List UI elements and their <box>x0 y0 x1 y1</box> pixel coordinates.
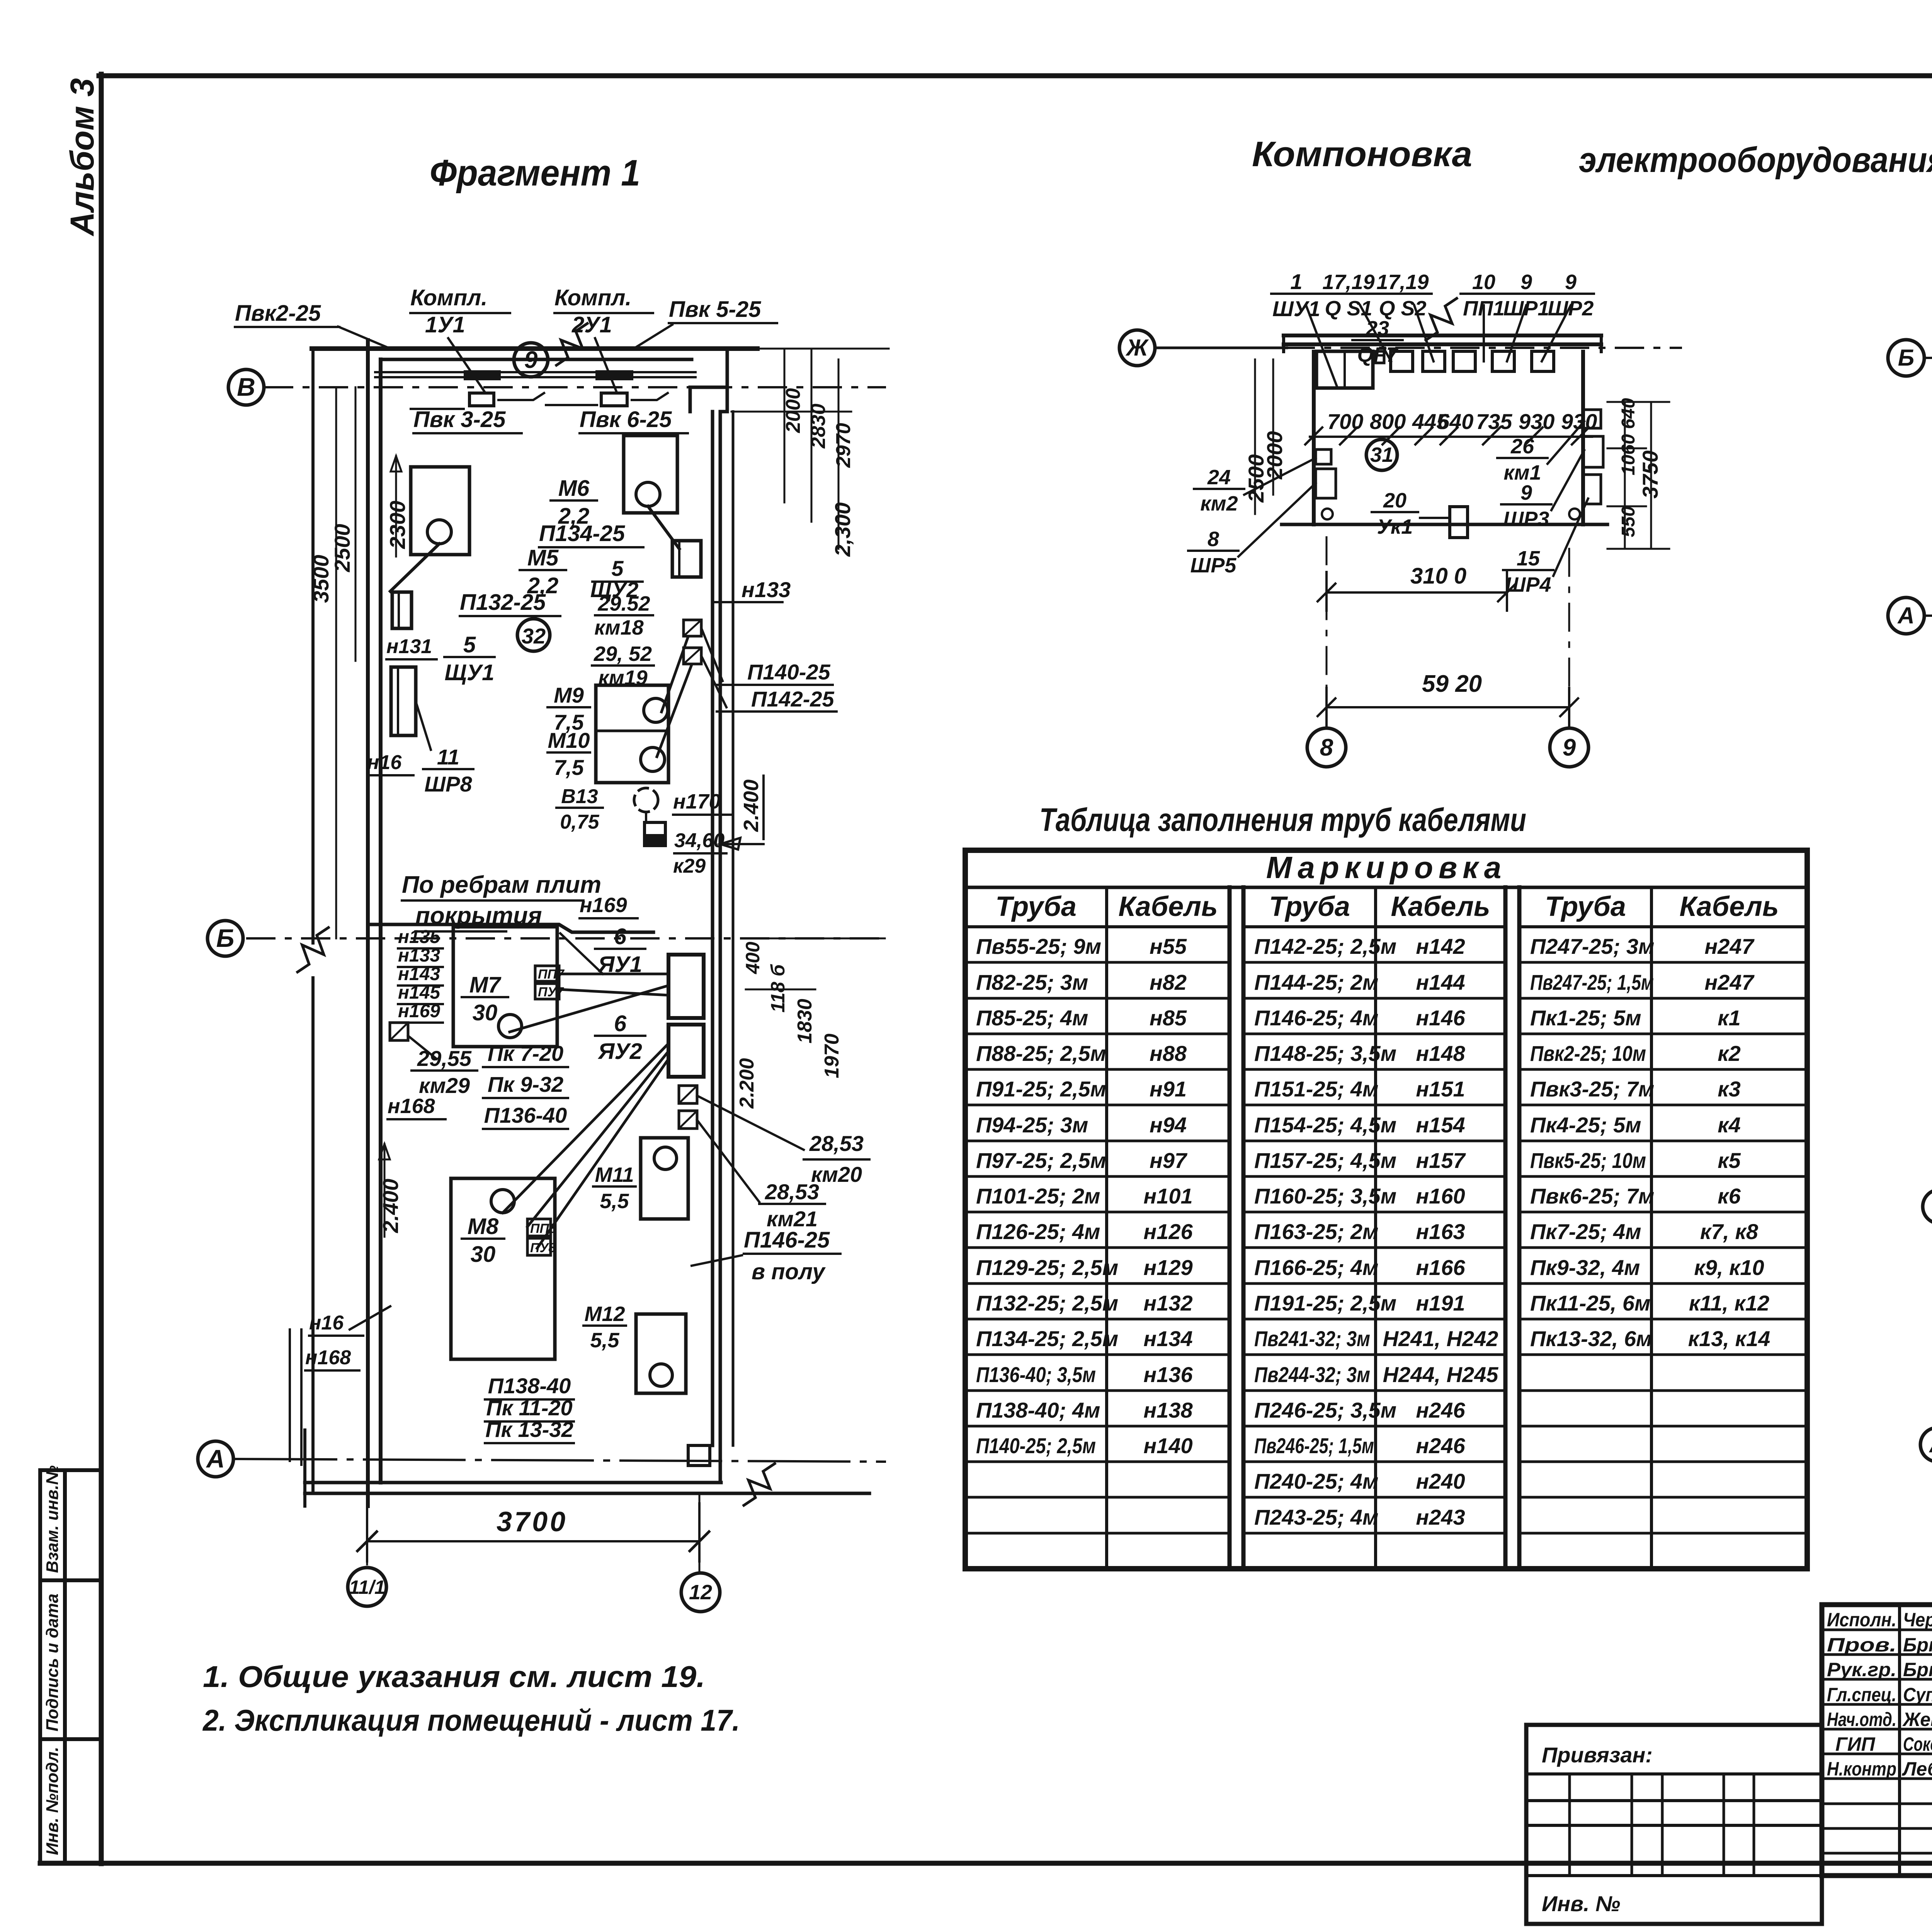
box YaU1 <box>668 955 704 1018</box>
svg-text:1970: 1970 <box>821 1033 843 1078</box>
svg-text:ПП7: ПП7 <box>538 967 565 982</box>
svg-text:5,5: 5,5 <box>590 1329 619 1352</box>
mid corner circles <box>1322 509 1333 519</box>
svg-text:Пвк6-25; 7м: Пвк6-25; 7м <box>1530 1184 1654 1208</box>
svg-text:118 б: 118 б <box>767 963 789 1013</box>
svg-text:ШУ1: ШУ1 <box>1272 296 1320 321</box>
svg-text:1. Общие указания см. лист: 1. Общие указания см. лист 19. <box>203 1660 705 1694</box>
svg-text:н246: н246 <box>1416 1433 1465 1458</box>
svg-text:н247: н247 <box>1704 934 1755 958</box>
boxes PP7 PU7 <box>535 966 559 981</box>
svg-text:П136-40; 3,5м: П136-40; 3,5м <box>976 1362 1096 1387</box>
svg-text:Пв246-25; 1,5м: Пв246-25; 1,5м <box>1254 1433 1374 1458</box>
svg-text:н136: н136 <box>1143 1362 1193 1387</box>
svg-text:н142: н142 <box>1416 934 1465 958</box>
svg-text:Пвк3-25; 7м: Пвк3-25; 7м <box>1530 1077 1654 1101</box>
label stack P138 <box>485 1398 574 1401</box>
svg-text:Пров.: Пров. <box>1827 1634 1896 1656</box>
svg-text:Пвк 5-25: Пвк 5-25 <box>669 297 761 322</box>
svg-text:Q S1: Q S1 <box>1325 297 1372 320</box>
svg-text:н138: н138 <box>1143 1398 1193 1422</box>
svg-text:Альбом 3: Альбом 3 <box>64 78 101 237</box>
svg-text:Пк1-25; 5м: Пк1-25; 5м <box>1530 1006 1641 1030</box>
svg-text:П157-25; 4,5м: П157-25; 4,5м <box>1254 1148 1396 1173</box>
svg-text:П97-25; 2,5м: П97-25; 2,5м <box>976 1148 1106 1173</box>
svg-text:Пк 13-32: Пк 13-32 <box>485 1417 573 1442</box>
svg-text:24: 24 <box>1207 466 1231 489</box>
svg-text:Пк 11-20: Пк 11-20 <box>486 1396 572 1420</box>
svg-text:3700: 3700 <box>497 1507 568 1537</box>
svg-text:А: А <box>206 1444 225 1473</box>
svg-text:26: 26 <box>1510 435 1534 458</box>
svg-text:н151: н151 <box>1416 1077 1465 1101</box>
svg-text:ШР2: ШР2 <box>1548 297 1594 320</box>
grid line V <box>265 386 885 388</box>
room circle 32 <box>517 619 550 651</box>
svg-text:н157: н157 <box>1416 1148 1466 1173</box>
svg-text:к9, к10: к9, к10 <box>1694 1255 1764 1280</box>
svg-text:н170: н170 <box>673 790 721 813</box>
rotated dims left <box>336 387 355 938</box>
box n131 <box>392 592 412 628</box>
rotated dim 2400 left <box>379 1144 390 1237</box>
left plan walls <box>312 346 757 351</box>
svg-text:Кабель: Кабель <box>1679 891 1779 922</box>
svg-text:П163-25; 2м: П163-25; 2м <box>1254 1219 1378 1244</box>
svg-text:П240-25; 4м: П240-25; 4м <box>1254 1469 1378 1493</box>
svg-text:П134-25; 2,5м: П134-25; 2,5м <box>976 1326 1118 1351</box>
Pvk6 box and label <box>601 393 627 406</box>
motor M6 <box>624 436 677 513</box>
svg-text:Пв247-25; 1,5м: Пв247-25; 1,5м <box>1530 970 1654 994</box>
svg-text:1У1: 1У1 <box>425 312 465 337</box>
rotated dims right bottom <box>746 938 885 989</box>
svg-text:км29: км29 <box>419 1073 470 1098</box>
svg-text:н131: н131 <box>386 635 432 658</box>
svg-text:2000: 2000 <box>1262 431 1287 480</box>
svg-text:Кабель: Кабель <box>1391 891 1490 922</box>
svg-text:н169: н169 <box>580 894 627 917</box>
svg-text:к1: к1 <box>1718 1006 1741 1030</box>
svg-text:Пвк5-25; 10м: Пвк5-25; 10м <box>1530 1148 1646 1173</box>
svg-text:15: 15 <box>1517 547 1540 570</box>
svg-text:2У1: 2У1 <box>571 312 612 337</box>
mid plan bottom wall <box>1282 523 1607 526</box>
svg-text:н133: н133 <box>742 577 791 602</box>
table markirovka divider <box>965 886 1807 889</box>
svg-text:6: 6 <box>614 1011 627 1036</box>
svg-text:Н241, Н242: Н241, Н242 <box>1383 1326 1498 1351</box>
door arc bottom <box>688 1445 710 1466</box>
table outer frame <box>965 850 1807 1569</box>
mid 31 circle <box>1366 439 1397 470</box>
svg-text:11: 11 <box>437 745 459 769</box>
svg-text:П151-25; 4м: П151-25; 4м <box>1254 1077 1378 1101</box>
svg-text:Н244, Н245: Н244, Н245 <box>1383 1362 1499 1387</box>
svg-text:П247-25; 3м: П247-25; 3м <box>1530 934 1654 958</box>
motor M5 <box>411 467 469 555</box>
svg-text:Б: Б <box>1898 345 1914 371</box>
svg-text:П82-25; 3м: П82-25; 3м <box>976 970 1088 994</box>
svg-text:н134: н134 <box>1143 1326 1192 1351</box>
mid small panels row <box>1391 351 1413 371</box>
svg-text:км2: км2 <box>1200 492 1238 515</box>
label n169 <box>580 917 638 919</box>
svg-text:н246: н246 <box>1416 1398 1465 1422</box>
svg-text:2000: 2000 <box>782 388 804 433</box>
frame left border <box>99 74 104 1864</box>
svg-text:2300: 2300 <box>385 500 410 549</box>
svg-text:к4: к4 <box>1718 1113 1741 1137</box>
svg-text:700: 700 <box>1327 409 1363 434</box>
svg-text:ЯУ1: ЯУ1 <box>597 952 642 977</box>
svg-text:23: 23 <box>1366 317 1389 340</box>
svg-text:П144-25; 2м: П144-25; 2м <box>1254 970 1378 994</box>
leader lines top labels <box>235 326 339 328</box>
svg-text:электрооборудования: электрооборудования <box>1579 140 1932 180</box>
svg-text:ШР1: ШР1 <box>1503 297 1549 320</box>
svg-text:3750: 3750 <box>1638 450 1662 499</box>
svg-text:Ж: Ж <box>1125 335 1149 361</box>
svg-text:Компл.: Компл. <box>554 285 631 310</box>
svg-text:н247: н247 <box>1704 970 1755 994</box>
right secondary lines <box>732 412 735 1445</box>
grid circle 12 <box>699 1493 701 1572</box>
svg-text:н148: н148 <box>1416 1041 1465 1066</box>
svg-text:н101: н101 <box>1143 1184 1192 1208</box>
svg-text:н97: н97 <box>1150 1148 1188 1173</box>
mid dim 5920 <box>1327 706 1569 708</box>
svg-text:Пк 7-20: Пк 7-20 <box>488 1041 563 1066</box>
svg-text:П246-25; 3,5м: П246-25; 3,5м <box>1254 1398 1396 1422</box>
svg-text:н82: н82 <box>1150 970 1187 994</box>
svg-text:А: А <box>1897 603 1914 628</box>
svg-text:1830: 1830 <box>794 999 816 1044</box>
svg-text:к29: к29 <box>673 855 706 877</box>
svg-text:29,55: 29,55 <box>417 1046 472 1071</box>
svg-text:2. Экспликация помещений -: 2. Экспликация помещений - лист 17. <box>202 1703 740 1737</box>
svg-text:П85-25; 4м: П85-25; 4м <box>976 1006 1088 1030</box>
svg-text:9: 9 <box>524 347 538 373</box>
svg-text:н168: н168 <box>305 1347 351 1369</box>
svg-text:П140-25; 2,5м: П140-25; 2,5м <box>976 1433 1096 1458</box>
svg-text:550: 550 <box>1618 506 1639 537</box>
svg-text:735: 735 <box>1476 409 1512 434</box>
svg-text:28,53: 28,53 <box>765 1180 819 1204</box>
km29 <box>390 1023 408 1040</box>
break bottom right <box>744 1464 775 1505</box>
box YaU2 <box>668 1025 704 1077</box>
mid dim row <box>1310 436 1592 438</box>
right grid A wall <box>1924 615 1932 617</box>
mid dim 3100 <box>1327 591 1507 594</box>
right niche step <box>690 349 727 412</box>
right plan grid B wall <box>1924 357 1932 359</box>
svg-text:Взам. инв.№: Взам. инв.№ <box>43 1466 62 1573</box>
svg-text:Пв55-25; 9м: Пв55-25; 9м <box>976 934 1101 958</box>
mid right boxes <box>1583 410 1601 428</box>
svg-text:Лебская: Лебская <box>1902 1758 1932 1780</box>
svg-text:17,19: 17,19 <box>1322 271 1374 294</box>
privyazan block <box>1526 1725 1822 1924</box>
svg-text:А: А <box>1929 1432 1932 1457</box>
svg-text:н191: н191 <box>1416 1291 1465 1315</box>
svg-text:2.400: 2.400 <box>378 1179 403 1233</box>
svg-text:н169: н169 <box>398 1001 440 1021</box>
svg-text:Рук.гр.: Рук.гр. <box>1827 1659 1896 1680</box>
svg-text:Жевнеров: Жевнеров <box>1902 1709 1932 1730</box>
svg-text:2830: 2830 <box>807 403 830 449</box>
svg-text:3500: 3500 <box>309 555 333 603</box>
svg-text:Q S2: Q S2 <box>1379 297 1426 320</box>
svg-text:30: 30 <box>471 1242 496 1267</box>
svg-text:ПП8: ПП8 <box>530 1221 556 1236</box>
svg-text:покрытия: покрытия <box>415 902 542 929</box>
svg-text:М5: М5 <box>527 545 559 570</box>
svg-text:Н.контр: Н.контр <box>1827 1758 1896 1780</box>
svg-text:к2: к2 <box>1718 1041 1741 1066</box>
mid plan left wall <box>1312 352 1316 524</box>
mid UK1 box <box>1450 507 1468 538</box>
svg-text:29.52: 29.52 <box>597 592 650 615</box>
svg-text:П191-25; 2,5м: П191-25; 2,5м <box>1254 1291 1396 1315</box>
mid right labels <box>1497 457 1548 459</box>
svg-text:28,53: 28,53 <box>809 1131 864 1156</box>
svg-text:П88-25; 2,5м: П88-25; 2,5м <box>976 1041 1106 1066</box>
svg-text:ШР5: ШР5 <box>1190 554 1237 577</box>
svg-text:П138-40: П138-40 <box>488 1374 571 1398</box>
svg-text:км1: км1 <box>1503 461 1541 484</box>
internal wall at B <box>368 924 653 932</box>
svg-text:П154-25; 4,5м: П154-25; 4,5м <box>1254 1113 1396 1137</box>
svg-text:Пв244-32; 3м: Пв244-32; 3м <box>1254 1362 1370 1387</box>
mid UK1 label <box>1372 511 1418 513</box>
svg-text:ПП1: ПП1 <box>1463 297 1505 320</box>
svg-text:Гл.спец.: Гл.спец. <box>1827 1684 1896 1706</box>
svg-text:М9: М9 <box>554 683 584 707</box>
svg-text:к3: к3 <box>1718 1077 1741 1101</box>
obl grid A line <box>1920 1428 1932 1462</box>
svg-text:н16: н16 <box>367 751 402 774</box>
svg-text:П142-25: П142-25 <box>751 687 835 711</box>
svg-text:М11: М11 <box>595 1163 634 1187</box>
svg-text:8: 8 <box>1320 734 1333 761</box>
svg-text:Подпись и дата: Подпись и дата <box>43 1593 62 1731</box>
svg-text:ГИП: ГИП <box>1835 1733 1876 1755</box>
label stack Pk7 <box>483 1066 568 1068</box>
svg-text:6: 6 <box>614 924 627 949</box>
right wall <box>690 387 720 1483</box>
svg-text:Червонная: Червонная <box>1903 1609 1932 1631</box>
svg-text:П243-25; 4м: П243-25; 4м <box>1254 1505 1378 1529</box>
svg-text:н88: н88 <box>1150 1041 1187 1066</box>
V13 dashed circle <box>634 788 658 812</box>
svg-text:П136-40: П136-40 <box>484 1103 567 1127</box>
svg-text:Пк 9-32: Пк 9-32 <box>488 1072 563 1096</box>
motor M7 <box>453 927 557 1047</box>
svg-text:М7: М7 <box>469 972 502 998</box>
motors M9 M10 <box>596 685 668 783</box>
svg-text:Ук1: Ук1 <box>1377 515 1413 538</box>
svg-text:П132-25; 2,5м: П132-25; 2,5м <box>976 1291 1118 1315</box>
motor M12 <box>636 1314 686 1393</box>
svg-text:П134-25: П134-25 <box>539 521 625 546</box>
svg-text:400: 400 <box>742 941 764 974</box>
svg-text:П129-25; 2,5м: П129-25; 2,5м <box>976 1255 1118 1280</box>
svg-text:2,300: 2,300 <box>830 502 855 557</box>
mid rotated dims left <box>1255 359 1273 514</box>
mid plan right wall <box>1581 352 1585 524</box>
po rebram note <box>402 901 583 931</box>
svg-text:2500: 2500 <box>330 524 354 572</box>
wall black bar 2 <box>595 370 633 380</box>
mid grid circles 8 9 <box>1326 537 1328 723</box>
svg-text:Исполн.: Исполн. <box>1827 1609 1896 1631</box>
Pvk3 box and label <box>469 393 494 406</box>
svg-text:Б: Б <box>216 924 235 952</box>
svg-text:Пвк2-25: Пвк2-25 <box>235 301 321 326</box>
svg-text:ШР4: ШР4 <box>1505 573 1551 596</box>
svg-text:П126-25; 4м: П126-25; 4м <box>976 1219 1100 1244</box>
svg-text:2970: 2970 <box>832 423 855 468</box>
svg-text:11/1: 11/1 <box>349 1576 385 1598</box>
grid line A <box>236 1459 885 1462</box>
svg-text:640: 640 <box>1618 398 1639 429</box>
svg-text:П142-25; 2,5м: П142-25; 2,5м <box>1254 934 1396 958</box>
svg-text:30: 30 <box>473 1000 498 1025</box>
svg-text:Труба: Труба <box>1269 891 1350 922</box>
left wall double <box>368 340 381 1506</box>
svg-text:9: 9 <box>1520 481 1532 504</box>
leaders km18 km19 to motors <box>657 638 692 757</box>
svg-text:П160-25; 3,5м: П160-25; 3,5м <box>1254 1184 1396 1208</box>
label stack n135 <box>398 947 443 950</box>
mid labels left <box>1194 488 1244 490</box>
svg-text:800: 800 <box>1370 409 1406 434</box>
svg-text:н144: н144 <box>1416 970 1465 994</box>
svg-text:ШР3: ШР3 <box>1503 507 1549 531</box>
mid vertical dims right <box>1607 402 1669 549</box>
km18 km19 <box>684 620 701 636</box>
svg-text:н133: н133 <box>398 945 440 966</box>
mid labels top <box>1271 293 1321 295</box>
svg-text:0,75: 0,75 <box>560 811 599 833</box>
svg-text:9: 9 <box>1565 271 1577 294</box>
svg-text:930: 930 <box>1561 409 1597 434</box>
svg-text:н154: н154 <box>1416 1113 1465 1137</box>
svg-text:М12: М12 <box>584 1302 625 1326</box>
break sym on left line <box>298 928 328 972</box>
svg-text:32: 32 <box>522 624 546 648</box>
svg-text:П101-25; 2м: П101-25; 2м <box>976 1184 1100 1208</box>
left attachment boxes <box>40 1470 101 1863</box>
svg-text:Инв. №: Инв. № <box>1542 1891 1620 1916</box>
svg-text:П148-25; 3,5м: П148-25; 3,5м <box>1254 1041 1396 1066</box>
n16 n168 labels <box>309 1335 363 1337</box>
svg-text:н140: н140 <box>1143 1433 1192 1458</box>
svg-text:н143: н143 <box>398 964 440 984</box>
svg-text:Брюм: Брюм <box>1903 1659 1932 1680</box>
svg-text:ЩУ1: ЩУ1 <box>445 660 495 685</box>
dim 3700 <box>367 1540 699 1542</box>
svg-text:н166: н166 <box>1416 1255 1465 1280</box>
svg-text:П166-25; 4м: П166-25; 4м <box>1254 1255 1378 1280</box>
svg-text:М10: М10 <box>548 728 590 752</box>
svg-text:Таблица заполнения труб ка: Таблица заполнения труб кабелями <box>1039 802 1526 838</box>
svg-text:к13, к14: к13, к14 <box>1688 1326 1770 1351</box>
svg-text:QF7: QF7 <box>1357 343 1399 366</box>
svg-text:10: 10 <box>1472 271 1495 294</box>
leaders YaU to M7/M8 <box>510 974 668 1032</box>
svg-text:П146-25; 4м: П146-25; 4м <box>1254 1006 1378 1030</box>
svg-text:Пк9-32, 4м: Пк9-32, 4м <box>1530 1255 1640 1280</box>
frame bottom border <box>40 1861 1932 1866</box>
svg-text:9: 9 <box>1563 734 1576 761</box>
svg-text:1060: 1060 <box>1618 434 1639 475</box>
svg-text:Пвк2-25; 10м: Пвк2-25; 10м <box>1530 1041 1646 1066</box>
label P146 v polu <box>744 1253 840 1255</box>
svg-text:н129: н129 <box>1143 1255 1192 1280</box>
km20 km21 <box>679 1086 697 1103</box>
svg-text:н132: н132 <box>1143 1291 1192 1315</box>
svg-text:Компоновка: Компоновка <box>1252 134 1472 174</box>
motor M11 <box>641 1138 688 1219</box>
svg-text:М6: М6 <box>558 476 590 501</box>
svg-text:Кабель: Кабель <box>1118 891 1218 922</box>
svg-text:Супрунова: Супрунова <box>1903 1684 1932 1706</box>
svg-text:Труба: Труба <box>995 891 1077 922</box>
svg-text:н163: н163 <box>1416 1219 1465 1244</box>
svg-text:5,5: 5,5 <box>600 1190 629 1213</box>
svg-text:Фрагмент 1: Фрагмент 1 <box>430 152 640 194</box>
svg-text:П132-25: П132-25 <box>460 590 546 615</box>
svg-text:ПУ8: ПУ8 <box>530 1241 556 1255</box>
motor M8 <box>451 1178 555 1359</box>
svg-text:34,60: 34,60 <box>674 829 724 852</box>
svg-text:н240: н240 <box>1416 1469 1465 1493</box>
svg-text:Брюм: Брюм <box>1903 1634 1932 1656</box>
svg-text:н145: н145 <box>398 982 440 1003</box>
box n170 <box>645 822 665 846</box>
svg-text:н135: н135 <box>398 927 440 947</box>
svg-text:н85: н85 <box>1150 1006 1187 1030</box>
svg-text:930: 930 <box>1519 409 1554 434</box>
svg-text:н160: н160 <box>1416 1184 1465 1208</box>
svg-text:Пк4-25; 5м: Пк4-25; 5м <box>1530 1113 1641 1137</box>
rotated dim 2400 right <box>720 776 764 849</box>
svg-text:Нач.отд.: Нач.отд. <box>1827 1709 1896 1730</box>
svg-text:Привязан:: Привязан: <box>1542 1743 1653 1767</box>
svg-text:Пк13-32, 6м: Пк13-32, 6м <box>1530 1326 1652 1351</box>
svg-text:5: 5 <box>611 556 624 580</box>
svg-text:к7, к8: к7, к8 <box>1700 1219 1759 1244</box>
svg-text:ШР8: ШР8 <box>424 772 472 796</box>
svg-text:Пвк 6-25: Пвк 6-25 <box>580 407 672 432</box>
svg-text:17,19: 17,19 <box>1376 271 1429 294</box>
frame top border <box>99 73 1932 78</box>
wall black bar 1 <box>464 370 501 380</box>
svg-text:н91: н91 <box>1150 1077 1187 1101</box>
svg-text:П94-25; 3м: П94-25; 3м <box>976 1113 1088 1137</box>
svg-text:П140-25: П140-25 <box>747 660 831 684</box>
svg-text:5: 5 <box>463 632 476 657</box>
title block signature table frame <box>1822 1605 1932 1876</box>
mid panels ShU1 <box>1316 351 1373 388</box>
svg-text:Пк11-25, 6м: Пк11-25, 6м <box>1530 1291 1650 1315</box>
svg-text:ЯУ2: ЯУ2 <box>597 1039 642 1064</box>
mid plan grid Zh <box>1155 347 1287 349</box>
svg-text:н94: н94 <box>1150 1113 1187 1137</box>
